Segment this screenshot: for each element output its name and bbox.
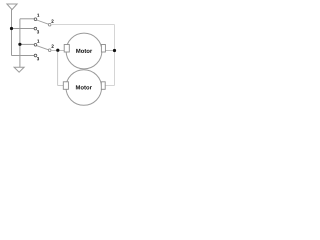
motor M1 bbox=[64, 33, 105, 69]
node: junction dot ground/SW2-1 bbox=[18, 43, 21, 46]
SW1 pin label 2 bbox=[51, 20, 53, 23]
node: junction dot net B / M1 left bbox=[56, 49, 59, 52]
SW1 pin label 1 bbox=[37, 14, 39, 17]
M2 left terminal box bbox=[63, 82, 68, 90]
SW2 pin 3 terminal bbox=[34, 54, 37, 57]
node: junction dot right bus / M1 bbox=[113, 49, 116, 52]
M1 body circle bbox=[66, 33, 102, 69]
wire: net B to motor M2 left terminal bbox=[58, 85, 64, 87]
M2 label bbox=[76, 85, 80, 89]
node: junction dot power/SW1-3 bbox=[10, 27, 13, 30]
SW2 lever bbox=[37, 46, 49, 50]
M2 right terminal box bbox=[101, 82, 105, 90]
wire: power branch to SW1 pin3 bbox=[12, 28, 35, 30]
M1 right terminal box bbox=[101, 45, 105, 53]
M1 label bbox=[76, 49, 80, 53]
SW1 lever bbox=[37, 20, 49, 24]
M1 left terminal box bbox=[64, 45, 69, 53]
SW2 pin label 1 bbox=[37, 39, 39, 42]
wire: power branch to SW2 pin3 bbox=[12, 55, 35, 57]
wire: right bus to motor M2 right terminal bbox=[105, 85, 114, 87]
SW1 pin 2 terminal bbox=[48, 23, 51, 26]
motor M2 bbox=[63, 70, 105, 106]
SW2 pin label 3 bbox=[37, 57, 39, 60]
SW1 pin 1 terminal bbox=[34, 18, 37, 21]
antenna / supply symbol bbox=[7, 4, 17, 10]
wire: right bus vertical (net A, light) bbox=[114, 25, 116, 86]
M2 body circle bbox=[66, 70, 102, 106]
wire: net B vertical x=57.6 bbox=[57, 51, 59, 86]
SW1 pin label 3 bbox=[37, 30, 39, 33]
wire: SW2-2 to motor M1 left terminal (net B) bbox=[51, 50, 64, 52]
SW1 pin 3 terminal bbox=[34, 27, 37, 30]
switch SW1 bbox=[34, 14, 53, 34]
wire: SW1-2 to right bus (net A, light) bbox=[51, 24, 114, 26]
wire: ground branch to SW2 pin1 bbox=[20, 43, 34, 45]
SW2 pin 2 terminal bbox=[48, 49, 51, 52]
ground bbox=[14, 67, 24, 72]
SW2 pin label 2 bbox=[51, 45, 53, 48]
wire: ground branch to SW1 pin1 bbox=[20, 18, 34, 20]
wire: ground bus vertical x=20.2 bbox=[19, 19, 21, 67]
wire: right bus to motor M1 right terminal bbox=[105, 50, 114, 52]
switch SW2 bbox=[34, 39, 53, 60]
SW2 pin 1 terminal bbox=[34, 44, 37, 47]
wire: power bus vertical x=12 bbox=[11, 10, 13, 56]
